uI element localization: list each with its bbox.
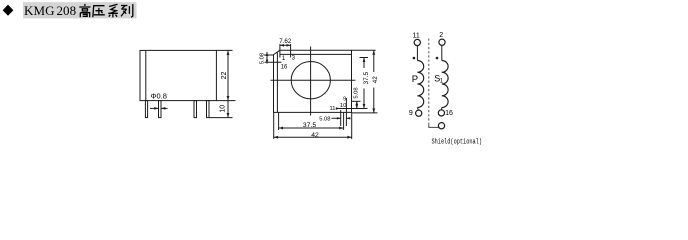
- terminal circle pin 16: [438, 110, 444, 116]
- svg-text:5.08: 5.08: [319, 116, 330, 122]
- core circle: [291, 61, 330, 98]
- 压: [93, 6, 105, 18]
- extension line row A left: [264, 54, 274, 56]
- wire pin 2 to secondary: [441, 45, 443, 60]
- vertical centerline: [310, 47, 312, 116]
- shield dashed line: [428, 39, 430, 125]
- svg-text:7.62: 7.62: [279, 38, 292, 45]
- pin 2 (left view): [159, 101, 162, 118]
- svg-text:Shield(optional): Shield(optional): [432, 139, 483, 147]
- primary winding P: [417, 61, 423, 108]
- body inner edge line: [145, 50, 147, 100]
- dim line 37.5 bottom: [279, 127, 344, 129]
- dim line 5.08 left: [266, 52, 268, 64]
- phase dot secondary: [436, 57, 439, 60]
- svg-text:22: 22: [221, 72, 228, 80]
- shield tap horizontal: [429, 124, 439, 127]
- terminal circle pin 2: [439, 39, 445, 45]
- horizontal centerline: [271, 79, 356, 81]
- title highlight background: [23, 2, 137, 18]
- extension line pin col right bottom: [343, 112, 345, 130]
- svg-text:11: 11: [413, 33, 420, 40]
- dim line 42 vertical: [373, 50, 375, 72]
- secondary winding S1: [442, 61, 448, 108]
- pin 3 (left view): [194, 101, 197, 118]
- bottom edge extension right: [352, 112, 378, 114]
- pin column line 9/10: [345, 98, 347, 126]
- extension line pin col 1: [279, 44, 281, 58]
- svg-text:16: 16: [281, 64, 288, 70]
- leader arrow for pin 11: [336, 107, 340, 109]
- svg-text:9: 9: [409, 110, 413, 117]
- pin column ext 11: [340, 110, 342, 126]
- extension line pin col 1 bottom: [278, 112, 280, 130]
- svg-text:42: 42: [311, 132, 319, 139]
- extension line top right: [216, 49, 232, 51]
- extension line col right bottom: [351, 112, 353, 139]
- svg-text:10: 10: [220, 105, 227, 113]
- pin row line bottom: [338, 108, 368, 110]
- svg-text:16: 16: [445, 110, 453, 117]
- svg-text:KMG208: KMG208: [24, 3, 76, 18]
- svg-text:10: 10: [340, 103, 346, 109]
- dim line 7.62: [280, 44, 291, 46]
- dim line 42 bottom: [274, 136, 352, 138]
- inner top line: [280, 53, 352, 55]
- svg-text:37.5: 37.5: [303, 122, 316, 129]
- extension line pin col 2: [290, 44, 292, 58]
- dimension arrow 10 bottom: [227, 113, 230, 118]
- terminal circle pin 9: [416, 110, 422, 116]
- extension line pin bottom: [209, 117, 233, 119]
- arrow right of pin dia: [161, 107, 167, 109]
- dimension line 22: [227, 50, 229, 117]
- shield terminal circle: [438, 123, 444, 129]
- wire primary to pin 9: [416, 108, 419, 111]
- top edge extension right: [352, 49, 376, 51]
- arrow left of pin dia: [150, 107, 158, 109]
- 列: [121, 4, 133, 17]
- inner left line: [276, 53, 278, 113]
- svg-text:Φ0.8: Φ0.8: [151, 92, 167, 101]
- 系: [108, 4, 118, 17]
- dim line 5.08 right vertical: [356, 101, 358, 108]
- extension line box bottom right: [216, 100, 235, 102]
- svg-text:5.08: 5.08: [353, 87, 359, 98]
- extension line pin row top right: [360, 57, 369, 59]
- title bullet diamond: [3, 5, 14, 16]
- svg-text:1: 1: [282, 56, 286, 62]
- phase dot primary: [413, 57, 416, 60]
- dim arrows 5.08 bottom: [332, 117, 341, 119]
- svg-text:P: P: [412, 74, 418, 85]
- extension line row 9 right: [352, 100, 361, 102]
- svg-text:11: 11: [330, 106, 336, 112]
- svg-text:3: 3: [292, 55, 296, 61]
- svg-text:37.5: 37.5: [363, 71, 370, 84]
- pin 1 (left view): [145, 101, 147, 118]
- terminal circle pin 11: [414, 39, 420, 45]
- extension line row B left: [265, 61, 282, 63]
- square body outline with chamfer: [274, 50, 352, 112]
- title text 高压系列 (hand-drawn glyphs): [79, 4, 133, 18]
- pin 4 (left view): [207, 101, 210, 118]
- svg-text:9: 9: [343, 96, 346, 102]
- dim line 37.5 vertical: [363, 58, 365, 69]
- wire secondary to pin 16: [441, 108, 443, 110]
- svg-text:2: 2: [439, 32, 443, 39]
- wire pin 11 to primary: [416, 46, 418, 61]
- 高: [79, 4, 90, 17]
- component body box: [140, 50, 216, 100]
- svg-text:42: 42: [372, 76, 379, 84]
- extension line col left bottom: [273, 112, 275, 139]
